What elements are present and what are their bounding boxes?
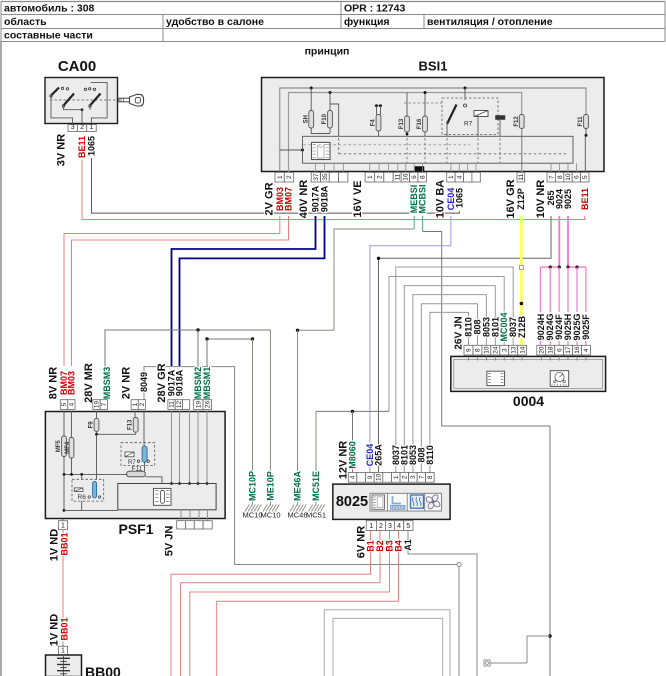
svg-text:ME10P: ME10P	[265, 471, 275, 501]
svg-text:18: 18	[547, 346, 554, 354]
svg-text:10: 10	[565, 173, 572, 181]
svg-text:19: 19	[195, 401, 202, 409]
svg-text:1: 1	[61, 648, 65, 655]
svg-text:1: 1	[448, 175, 455, 179]
svg-text:7: 7	[419, 475, 426, 479]
svg-text:CA00: CA00	[58, 58, 96, 75]
svg-text:1065: 1065	[454, 188, 464, 208]
svg-text:6: 6	[556, 348, 563, 352]
svg-text:MC51E: MC51E	[311, 471, 321, 501]
svg-text:8: 8	[475, 348, 482, 352]
svg-text:0004: 0004	[513, 393, 544, 409]
svg-text:2: 2	[376, 175, 383, 179]
svg-text:9025: 9025	[563, 189, 573, 209]
svg-text:MCBSI: MCBSI	[418, 185, 428, 214]
svg-text:10V BA: 10V BA	[435, 180, 447, 219]
svg-text:F13: F13	[399, 118, 405, 129]
svg-text:24: 24	[492, 346, 499, 354]
svg-text:2: 2	[80, 124, 84, 131]
svg-text:19: 19	[94, 401, 101, 409]
svg-text:F13: F13	[127, 419, 133, 430]
svg-text:R6: R6	[78, 494, 87, 501]
svg-text:7: 7	[548, 175, 555, 179]
svg-text:BB01: BB01	[59, 532, 69, 555]
svg-text:функция: функция	[344, 16, 390, 28]
svg-text:10: 10	[376, 473, 383, 481]
svg-text:OPR : 12743: OPR : 12743	[344, 3, 405, 15]
svg-text:1: 1	[277, 175, 284, 179]
svg-text:2: 2	[379, 523, 383, 530]
svg-text:Z12B: Z12B	[517, 315, 527, 338]
svg-text:8V NR: 8V NR	[48, 367, 60, 399]
svg-text:1: 1	[61, 522, 65, 529]
svg-text:2V NR: 2V NR	[121, 367, 133, 399]
svg-text:M8060: M8060	[347, 441, 357, 469]
svg-text:8: 8	[427, 475, 434, 479]
svg-text:12: 12	[176, 401, 183, 409]
svg-text:5: 5	[582, 175, 589, 179]
svg-text:2: 2	[401, 475, 408, 479]
svg-text:1: 1	[393, 475, 400, 479]
svg-text:265A: 265A	[373, 444, 383, 466]
svg-text:8110: 8110	[425, 445, 435, 465]
svg-text:B1: B1	[365, 540, 375, 552]
svg-text:5: 5	[406, 523, 410, 530]
svg-text:8049: 8049	[139, 372, 149, 392]
svg-text:5V JN: 5V JN	[164, 526, 176, 557]
svg-text:MC51: MC51	[306, 511, 326, 520]
svg-text:5: 5	[61, 402, 68, 406]
svg-text:4: 4	[583, 348, 590, 352]
svg-text:40V NR: 40V NR	[298, 180, 310, 219]
svg-text:область: область	[4, 16, 47, 28]
svg-text:вентиляция / отопление: вентиляция / отопление	[427, 16, 553, 28]
svg-text:3: 3	[501, 348, 508, 352]
svg-text:4: 4	[456, 175, 463, 179]
svg-text:A1: A1	[403, 539, 413, 551]
svg-text:MBSM1: MBSM1	[202, 367, 212, 400]
svg-text:удобство в салоне: удобство в салоне	[166, 16, 264, 28]
svg-text:11: 11	[394, 173, 401, 180]
svg-text:35: 35	[322, 173, 329, 181]
svg-text:Z12P: Z12P	[516, 188, 526, 210]
svg-text:BB00: BB00	[85, 664, 121, 676]
svg-text:BSI1: BSI1	[419, 59, 448, 74]
svg-text:9: 9	[367, 475, 374, 479]
svg-text:MBSM3: MBSM3	[102, 367, 112, 400]
svg-text:16V VE: 16V VE	[352, 180, 364, 217]
svg-text:PSF1: PSF1	[118, 521, 153, 537]
svg-text:4: 4	[350, 475, 357, 479]
svg-text:9018A: 9018A	[174, 369, 184, 396]
svg-text:R7: R7	[464, 121, 473, 128]
svg-text:26: 26	[204, 401, 211, 409]
svg-text:BM03: BM03	[66, 371, 76, 395]
svg-text:F9: F9	[88, 421, 94, 429]
svg-text:BE11: BE11	[77, 136, 87, 158]
svg-text:BM07: BM07	[283, 187, 293, 211]
svg-text:11: 11	[169, 401, 176, 408]
svg-text:28V MR: 28V MR	[83, 363, 95, 403]
svg-text:4: 4	[397, 523, 401, 530]
svg-text:F10: F10	[322, 113, 328, 124]
svg-text:1: 1	[132, 402, 139, 406]
svg-text:20: 20	[538, 346, 545, 354]
svg-text:MC10: MC10	[260, 511, 280, 520]
svg-text:4: 4	[69, 402, 76, 406]
svg-text:MC10P: MC10P	[247, 471, 257, 501]
svg-text:F16: F16	[417, 118, 423, 129]
svg-text:автомобиль : 308: автомобиль : 308	[4, 3, 95, 15]
svg-text:3V NR: 3V NR	[56, 134, 68, 166]
svg-text:3: 3	[410, 475, 417, 479]
svg-text:37: 37	[313, 173, 320, 181]
svg-text:7: 7	[101, 402, 108, 406]
svg-text:1065: 1065	[86, 136, 96, 156]
svg-text:F12: F12	[514, 116, 520, 127]
svg-text:2: 2	[139, 402, 146, 406]
svg-text:9: 9	[466, 348, 473, 352]
svg-text:17: 17	[565, 346, 572, 354]
svg-text:B2: B2	[375, 540, 385, 552]
svg-text:6: 6	[574, 175, 581, 179]
svg-text:3: 3	[71, 124, 75, 131]
svg-text:14: 14	[519, 346, 526, 354]
svg-text:F4: F4	[371, 119, 377, 127]
svg-text:1: 1	[369, 523, 373, 530]
svg-text:8: 8	[557, 175, 564, 179]
svg-text:6: 6	[411, 175, 418, 179]
svg-text:MF4: MF4	[65, 441, 71, 454]
svg-text:9025F: 9025F	[581, 314, 591, 340]
svg-text:B4: B4	[393, 540, 403, 552]
svg-text:16: 16	[403, 173, 410, 181]
svg-text:F11: F11	[578, 116, 584, 127]
svg-text:1: 1	[367, 175, 374, 179]
svg-text:ME46A: ME46A	[292, 470, 302, 501]
svg-text:MF5: MF5	[56, 440, 62, 453]
svg-text:BB01: BB01	[59, 617, 69, 640]
svg-text:2: 2	[286, 175, 293, 179]
svg-text:9018A: 9018A	[319, 185, 329, 212]
svg-text:3: 3	[388, 523, 392, 530]
svg-text:10: 10	[483, 346, 490, 354]
svg-text:1: 1	[89, 124, 93, 131]
svg-text:SH: SH	[303, 115, 309, 123]
svg-text:11: 11	[518, 173, 525, 180]
svg-text:8: 8	[419, 175, 426, 179]
svg-text:16: 16	[574, 346, 581, 354]
svg-text:принцип: принцип	[305, 46, 350, 58]
svg-text:13: 13	[510, 346, 517, 354]
svg-text:MC46: MC46	[287, 511, 307, 520]
svg-text:BE11: BE11	[580, 188, 590, 210]
svg-text:составные части: составные части	[4, 30, 93, 42]
svg-text:8025: 8025	[336, 494, 368, 510]
